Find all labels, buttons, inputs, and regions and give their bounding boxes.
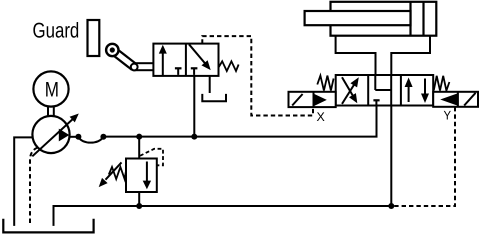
V2 right position up arrow (405, 78, 413, 103)
relief valve inlet pipe (138, 137, 140, 159)
V1 left position flow arrow (159, 45, 167, 76)
relief valve outlet pipe (138, 192, 140, 206)
relief valve pilot (dashed) (140, 149, 163, 166)
lever pivot (131, 64, 138, 71)
cylinder barrel (331, 2, 437, 36)
pressure line (103, 106, 376, 137)
V2 left position crossed arrow 2 (342, 77, 357, 103)
pump outlet stub (69, 136, 78, 138)
V1 drain pipe (209, 76, 211, 93)
suction pipe (14, 137, 33, 226)
valve V2 body (4/3 main valve) (336, 75, 434, 106)
junction node V1 branch (191, 134, 197, 140)
V1 return spring (219, 61, 239, 71)
junction node pump outlet (75, 134, 81, 140)
V2 left spring (317, 76, 333, 91)
valve V1 body (3/2 roller valve) (153, 44, 218, 76)
V2 left position crossed arrow 1 (342, 77, 359, 104)
motor M circle (33, 71, 68, 106)
svg-text:Guard: Guard (33, 19, 80, 43)
V2 centre position connector (375, 89, 391, 91)
junction node Y pilot tee (388, 203, 394, 209)
pilot line Y (dashed) (394, 107, 455, 206)
piston rod (305, 11, 411, 25)
pilot line V1 to X (dashed) (202, 36, 313, 115)
outlet hose arc (78, 137, 103, 143)
pump variable displacement arrow (32, 114, 79, 157)
V1 right position drain arrow (189, 44, 211, 70)
relief valve spring (109, 167, 126, 179)
V1 blocked port T1 (175, 68, 182, 75)
motor shaft (48, 106, 54, 117)
pump flow triangle (59, 129, 70, 142)
junction node relief branch (136, 134, 142, 140)
supply pipe to V1 (193, 76, 195, 137)
V2 right pilot box (pilot + solenoid) (433, 92, 478, 107)
V2 right spring (434, 76, 450, 91)
pipe B manifold (391, 36, 430, 75)
V2 centre blocked P port (373, 100, 379, 105)
relief valve adjust arrow (99, 162, 122, 187)
junction node hose end (100, 134, 106, 140)
junction node relief outlet (136, 203, 142, 209)
tank (3, 219, 93, 233)
T return pipe from V2 (390, 106, 392, 207)
svg-text:M: M (45, 78, 59, 101)
roller (106, 44, 118, 56)
svg-text:X: X (317, 110, 326, 124)
V1 drain cup (202, 94, 226, 101)
plunger bar (134, 63, 154, 70)
pipe A manifold (336, 36, 376, 75)
lever arm (112, 50, 134, 67)
svg-text:Y: Y (444, 109, 452, 123)
return line to tank (54, 206, 392, 226)
guard plate (88, 20, 100, 56)
V2 centre position A line (374, 75, 376, 90)
piston (411, 2, 424, 36)
pump circle (32, 116, 69, 153)
pump case drain (dashed) (30, 148, 38, 226)
V2 centre position B-T line (390, 75, 392, 106)
V1 blocked port T2 (191, 68, 198, 75)
V2 right position down arrow (421, 79, 429, 104)
V2 left pilot box (solenoid + pilot) (289, 92, 336, 107)
relief valve flow arrow (143, 162, 151, 190)
relief valve body (126, 159, 157, 193)
